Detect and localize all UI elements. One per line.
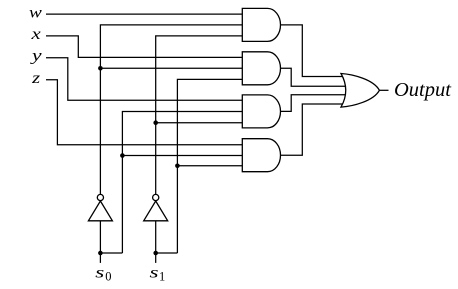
svg-text:s: s xyxy=(95,265,104,282)
svg-text:x: x xyxy=(30,26,40,43)
svg-text:0: 0 xyxy=(105,270,111,284)
svg-text:1: 1 xyxy=(159,270,165,284)
svg-text:s: s xyxy=(150,265,159,282)
svg-text:z: z xyxy=(31,70,41,87)
svg-text:y: y xyxy=(29,48,43,65)
svg-text:Output: Output xyxy=(394,79,452,101)
svg-text:w: w xyxy=(29,5,42,22)
